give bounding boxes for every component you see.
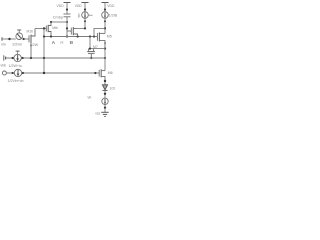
wire M1 drain to Mtb gate (35, 28, 44, 30)
current source row1 circle (14, 54, 21, 61)
svg-text:VDD: VDD (57, 4, 65, 8)
node dot 94,36.5 (93, 35, 95, 37)
svg-text:1/2W+io: 1/2W+io (9, 64, 22, 68)
current source 1/2IB circle (102, 12, 109, 19)
node dot 67,22 (66, 21, 68, 23)
svg-text:B: B (70, 40, 74, 46)
wire Cmb bottom segment (66, 17, 68, 37)
node dot 51,22 (50, 21, 52, 23)
M1 source arrow (30, 45, 32, 47)
svg-text:1/2I: 1/2I (109, 86, 115, 90)
node dot 105,58 (104, 57, 106, 59)
current source IB arrow (84, 12, 86, 17)
transistor M6 (99, 69, 105, 84)
current source out arrow (104, 99, 106, 104)
node dot 22.6,58 (22, 57, 24, 59)
node dot 44,36.5 (43, 35, 45, 37)
current source row2 circle (14, 69, 21, 76)
node dot gate M6 (94, 72, 96, 74)
node dot 44,73 (43, 72, 45, 74)
svg-text:Mtb: Mtb (52, 26, 58, 30)
node dot input arrow (8, 38, 10, 40)
wire VDD stem 1 (66, 3, 68, 15)
node dot 105,28.4 (104, 27, 106, 29)
svg-text:VDD: VDD (75, 4, 83, 8)
wire L from 105,28.4 to bus (94, 28, 105, 36)
node dot 23.6,39 (23, 38, 25, 40)
node dot 85,28.4 (84, 27, 86, 29)
M5 source arrow (104, 43, 106, 45)
current source row2 arrow (17, 70, 19, 75)
svg-text:vb: vb (87, 95, 91, 99)
svg-text:vin: vin (1, 42, 6, 46)
node dot 91.3,58 (90, 57, 92, 59)
node dot 12.6,58 (12, 57, 14, 59)
svg-text:M5: M5 (107, 35, 112, 39)
current source 1/2IB arrow (104, 12, 106, 17)
bus y73 (7, 72, 100, 74)
source vin circle (16, 33, 23, 40)
bus first stage y36.5 (44, 36, 97, 38)
svg-text:1/2Vin+vb: 1/2Vin+vb (8, 79, 24, 83)
wire vertical net x44 (43, 29, 45, 74)
node dot 51,36.5 (50, 35, 52, 37)
wire VDD stem 2 (84, 3, 86, 12)
svg-text:M7: M7 (93, 45, 98, 49)
svg-text:VDD: VDD (107, 4, 115, 8)
svg-text:(i: (i (78, 13, 81, 19)
svg-text:Cmbp: Cmbp (53, 16, 63, 20)
svg-text:M6: M6 (108, 71, 113, 75)
node dot 105,48.6 (104, 48, 106, 50)
node dot 85,9.5 (84, 8, 86, 10)
svg-text:1/2vin: 1/2vin (12, 43, 22, 47)
bus y58 (7, 57, 105, 59)
power VDD rail bar 3 (102, 2, 109, 4)
svg-text:vss: vss (95, 111, 100, 115)
transistor M5 (97, 32, 105, 48)
input terminal tick (1, 37, 3, 40)
source vin arrow (17, 34, 21, 39)
node dot 105,107.6 (104, 107, 106, 109)
capacitor Cmb (64, 14, 71, 17)
battery terminal left row1 (4, 55, 6, 60)
current source row1 stem (17, 51, 19, 54)
transistor M1b (29, 29, 35, 59)
node dot 12.6,73 (12, 72, 14, 74)
wire input (2, 38, 9, 40)
svg-text:vx: vx (60, 40, 64, 44)
wire M7 top rail (89, 48, 105, 50)
power VDD rail bar 1 (64, 2, 71, 4)
label arrow right of IB (89, 14, 93, 16)
wire below diode (104, 91, 106, 99)
source vin stem (18, 30, 20, 33)
node dot 67,28 (66, 27, 68, 29)
wire VDD stem 3 (104, 3, 106, 12)
power VDD rail bar 2 (82, 2, 89, 4)
current source out circle (102, 98, 108, 104)
transistor Mtb (44, 22, 51, 37)
diode D1 (102, 85, 107, 91)
ground (101, 112, 108, 116)
wire to M1 gate (22, 38, 29, 40)
node dot 44,58 (43, 57, 45, 59)
svg-text:M1b: M1b (27, 30, 34, 34)
svg-text:1/2IB: 1/2IB (109, 13, 118, 17)
node dot 22.9,73 (22, 72, 24, 74)
transistor M7 rotated (87, 49, 95, 58)
node dot branch Cmb top (66, 8, 68, 10)
node dot 105,21.3 (104, 20, 106, 22)
wire mirror stem x90 (89, 37, 91, 49)
svg-text:vbb: vbb (0, 64, 6, 68)
current source row1 arrow (17, 55, 19, 60)
source vin stem bar (17, 29, 21, 31)
wire below 1/2IB (104, 18, 106, 33)
node dot 105,9.5 (104, 8, 106, 10)
node dot 90,48.6 (89, 48, 91, 50)
current source row1 stem bar (16, 50, 20, 52)
svg-text:A: A (52, 40, 56, 46)
wire x105 lower (104, 49, 106, 71)
node dot 85,21.3 (84, 20, 86, 22)
node dot 105,81 (104, 80, 106, 82)
wire node22 horizontal (51, 21, 67, 23)
wire M8 drain to IB source (78, 18, 85, 28)
node dot 90,36.5 (89, 35, 91, 37)
wire below current source (104, 105, 106, 113)
current source IB circle (82, 12, 89, 19)
open terminal row2 (2, 71, 6, 75)
svg-text:1/2W: 1/2W (30, 43, 39, 47)
node dot 44,28.5 (43, 27, 45, 29)
node dot 77.6,36.5 (77, 35, 79, 37)
transistor M8 (67, 27, 78, 37)
node dot 105,93.8 (104, 93, 106, 95)
node dot 67,36.5 (66, 35, 68, 37)
node dot 31,58 (30, 57, 32, 59)
wire input 2 (11, 38, 16, 40)
